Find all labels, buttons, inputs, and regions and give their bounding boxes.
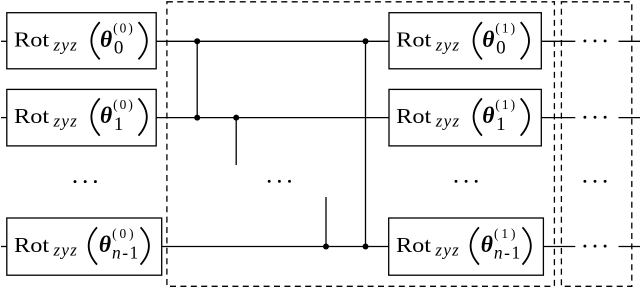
svg-text:n-1: n-1 <box>494 243 520 263</box>
dashed box: repeated layers <box>561 2 631 287</box>
gate Rot_zyz(theta_1^(0)) <box>7 89 156 145</box>
svg-text:(0): (0) <box>113 21 133 36</box>
wire qn-1 left stub <box>1 246 8 248</box>
control dot on qn-1 at x326 <box>323 244 329 250</box>
gate Rot_zyz(theta_0^(0)) <box>7 13 156 69</box>
svg-text:zyz: zyz <box>53 35 78 54</box>
gate Rot_zyz(theta_n-1^(0)) <box>7 218 162 275</box>
wire q0 middle segment <box>155 40 390 42</box>
CZ wire q0-q1 <box>196 41 198 117</box>
svg-text:Rot: Rot <box>14 28 50 51</box>
wire qn-1 middle segment <box>161 246 390 248</box>
svg-text:Rot: Rot <box>396 104 432 127</box>
svg-text:Rot: Rot <box>14 104 50 127</box>
svg-text:zyz: zyz <box>53 241 78 260</box>
svg-text:(0): (0) <box>112 226 134 241</box>
wire q0 left stub <box>1 40 8 42</box>
svg-text:Rot: Rot <box>14 233 50 256</box>
control dot on q0 at x365 <box>363 38 369 44</box>
wire qn-1 far-right segment <box>619 246 640 248</box>
ellipsis middle column <box>268 180 271 183</box>
ellipsis far-right q0 <box>583 39 586 42</box>
wire q1 left stub <box>1 117 8 119</box>
ellipsis far-right q1 <box>583 116 586 119</box>
svg-text:θ: θ <box>482 27 494 53</box>
gate Rot_zyz(theta_0^(1)) <box>389 13 541 69</box>
CZ wire q0-qn-1 <box>365 41 367 246</box>
gate Rot_zyz(theta_1^(1)) <box>389 89 541 145</box>
svg-text:(1): (1) <box>494 226 516 241</box>
ellipsis right column <box>455 180 458 183</box>
svg-text:zyz: zyz <box>435 35 460 54</box>
control dot on q0 at x197 <box>194 38 200 44</box>
svg-text:θ: θ <box>482 103 494 129</box>
ellipsis far-right qn-1 <box>583 245 586 248</box>
gate Rot_zyz(theta_n-1^(1)) <box>389 218 544 275</box>
wire q0 far-right segment <box>619 40 640 42</box>
CZ wire q1-down (truncated) <box>235 118 237 165</box>
control dot on qn-1 at x365 <box>363 244 369 250</box>
svg-text:Rot: Rot <box>396 233 432 256</box>
svg-text:(0): (0) <box>113 97 133 112</box>
dashed box: entangling layer <box>167 2 555 287</box>
wire q1 right segment <box>540 117 575 119</box>
svg-text:θ: θ <box>100 27 112 53</box>
ellipsis far-right dots row <box>583 180 586 183</box>
wire q1 middle segment <box>155 117 390 119</box>
svg-text:(1): (1) <box>495 21 515 36</box>
wire qn-1 right segment <box>542 246 575 248</box>
svg-text:(1): (1) <box>495 97 515 112</box>
svg-text:1: 1 <box>114 114 124 135</box>
svg-text:n-1: n-1 <box>112 243 138 263</box>
svg-text:θ: θ <box>481 232 493 258</box>
CZ wire up-qn-1 (truncated) <box>325 197 327 247</box>
svg-text:Rot: Rot <box>396 28 432 51</box>
svg-text:1: 1 <box>496 114 506 135</box>
wire q1 far-right segment <box>619 117 640 119</box>
control dot on q1 at x236 <box>233 115 239 121</box>
svg-text:θ: θ <box>100 103 112 129</box>
control dot on q1 at x197 <box>194 115 200 121</box>
svg-text:0: 0 <box>114 38 124 59</box>
svg-text:zyz: zyz <box>434 241 459 260</box>
ellipsis left column <box>74 180 77 183</box>
svg-text:zyz: zyz <box>435 112 460 131</box>
svg-text:θ: θ <box>99 232 111 258</box>
svg-text:0: 0 <box>496 38 506 59</box>
svg-text:zyz: zyz <box>53 112 78 131</box>
wire q0 right segment <box>540 40 575 42</box>
